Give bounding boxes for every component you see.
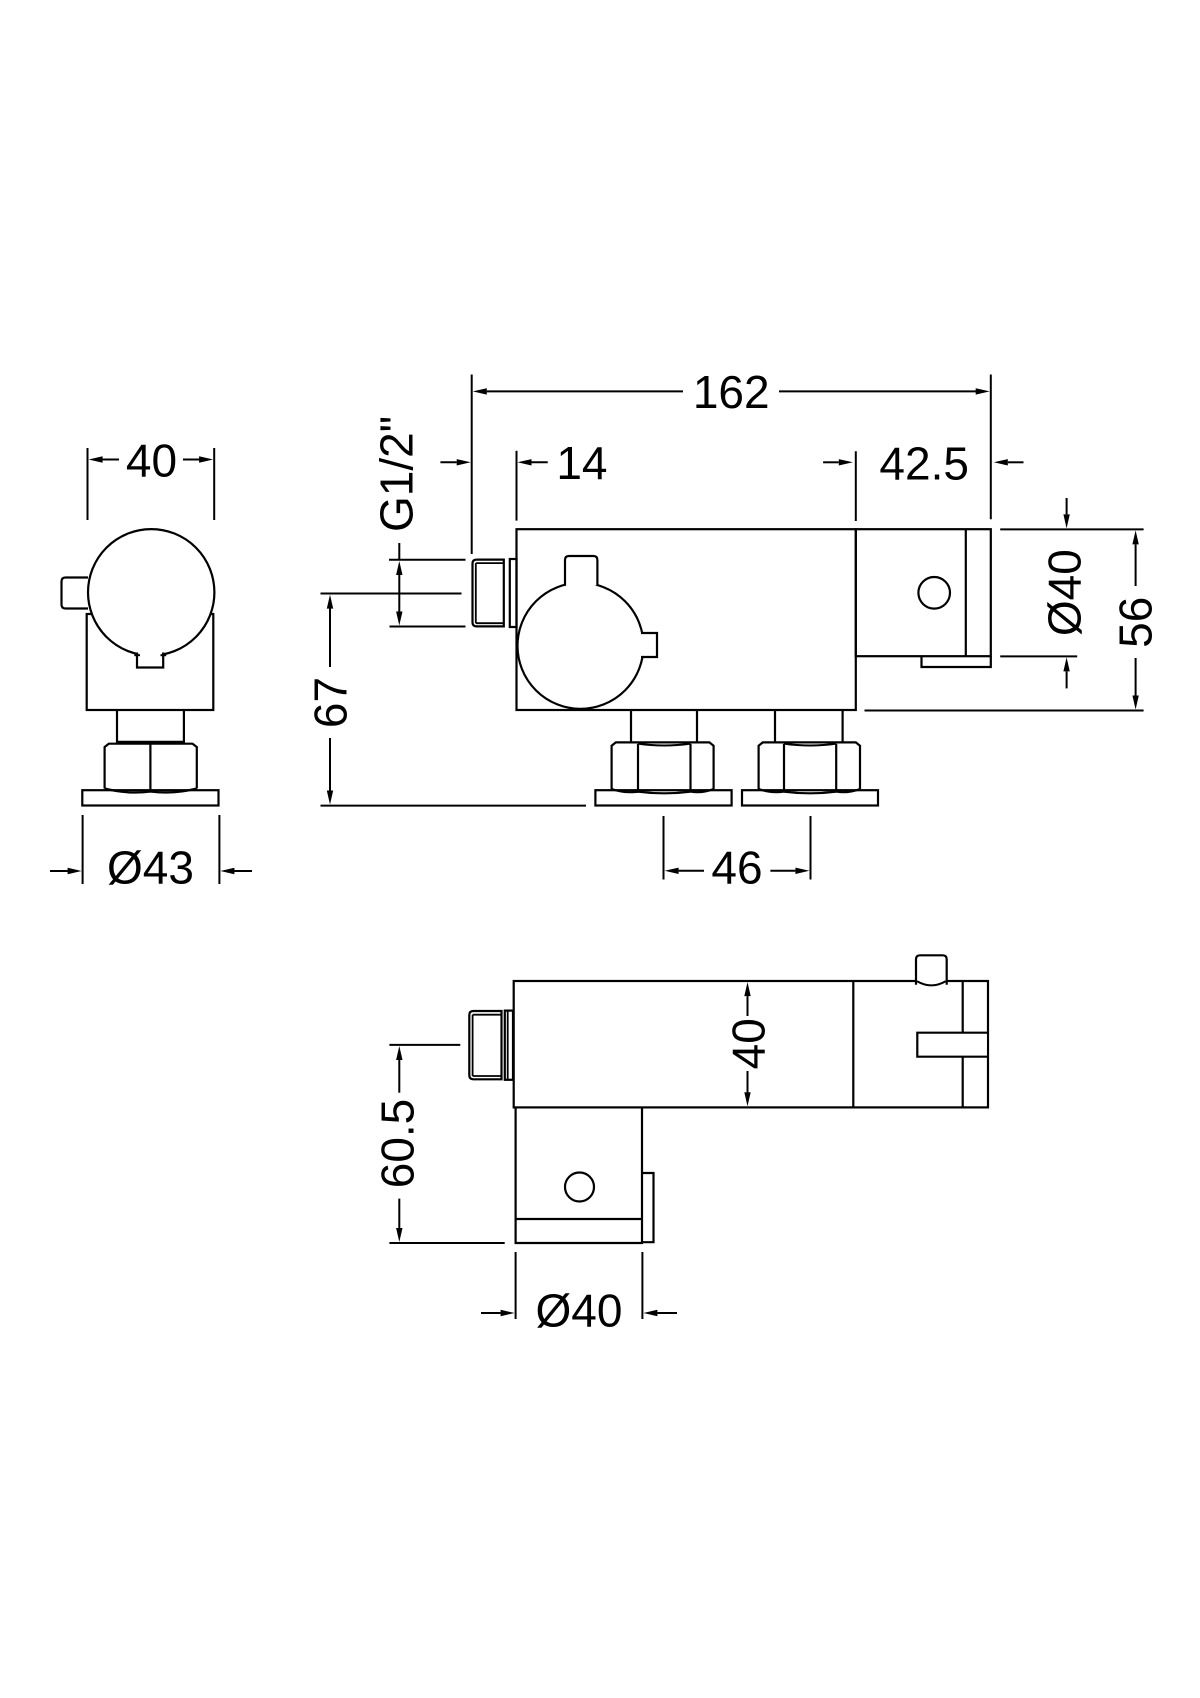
wall flange (side view): [82, 790, 218, 805]
dimension 46 (outlet centres): [663, 816, 665, 880]
valve body (plan view): [514, 981, 988, 1107]
svg-text:40: 40: [723, 1018, 775, 1069]
inlet collar washer (plan view): [505, 1011, 513, 1080]
knob top button (front view): [565, 556, 597, 586]
diverter button (side view): [62, 578, 89, 609]
left backnut (front view): [612, 742, 714, 789]
right wall flange (front view): [742, 790, 878, 805]
dimension 56 (body height): [865, 710, 1144, 712]
dimension 162 (overall width): [471, 375, 473, 555]
control knob (side view): [88, 529, 214, 655]
outlet stems (front view): [630, 710, 632, 744]
knob top button (plan view): [916, 955, 947, 984]
valve body (front view): [517, 529, 856, 710]
clamp slot (plan view): [918, 1034, 987, 1056]
svg-text:60.5: 60.5: [372, 1099, 424, 1189]
svg-text:162: 162: [693, 366, 770, 418]
svg-text:14: 14: [556, 437, 607, 489]
outlet hole (plan view): [565, 1173, 594, 1202]
inlet collar washer (front view): [510, 559, 517, 627]
knob circle (front view): [518, 583, 644, 709]
G1/2 inlet nipple (plan view): [469, 1011, 501, 1079]
dimension 60.5 (inlet centre to boss base, plan view): [389, 1044, 460, 1046]
svg-text:G1/2": G1/2": [371, 416, 423, 532]
outlet block bottom tab (front view): [922, 656, 991, 667]
svg-text:Ø40: Ø40: [536, 1285, 623, 1337]
inlet stem (side view): [116, 710, 118, 744]
dimension 14 (inlet offset): [516, 451, 518, 521]
outlet block cap line (front view): [965, 529, 967, 656]
boss side tab (plan view): [642, 1173, 654, 1242]
bottom outlet boss (plan view): [516, 1107, 642, 1243]
knob index tab (side view): [138, 650, 162, 667]
dimension 42.5 (outlet block width): [855, 451, 857, 521]
dimension Ø40 (outlet block height): [1000, 528, 1143, 530]
dimension Ø40 (boss diameter, plan view): [515, 1252, 517, 1319]
left wall flange (front view): [595, 790, 731, 805]
svg-text:Ø40: Ø40: [1038, 549, 1090, 636]
svg-text:Ø43: Ø43: [107, 842, 194, 894]
right backnut (front view): [759, 742, 860, 789]
dimension 40 (knob diameter, side view): [87, 448, 89, 520]
outlet block cap line (plan view): [962, 981, 964, 1033]
valve body (side view): [87, 614, 214, 710]
outlet block divider (plan view): [852, 981, 854, 1107]
backnut (side view): [105, 744, 197, 789]
dimension 40 (body depth, plan view): [744, 982, 750, 996]
shower outlet block (front view): [856, 529, 991, 656]
dimension Ø43 (flange diameter, side view): [82, 815, 84, 884]
dimension 67 (inlet centre height): [321, 593, 462, 595]
svg-text:46: 46: [711, 841, 762, 893]
outlet hole (front view): [918, 577, 950, 609]
svg-text:42.5: 42.5: [879, 438, 969, 490]
knob side tab (front view): [641, 634, 656, 656]
svg-text:40: 40: [126, 435, 177, 487]
svg-text:67: 67: [305, 677, 357, 728]
G1/2 threaded inlet nipple (front view): [473, 560, 504, 627]
svg-text:56: 56: [1110, 597, 1162, 648]
